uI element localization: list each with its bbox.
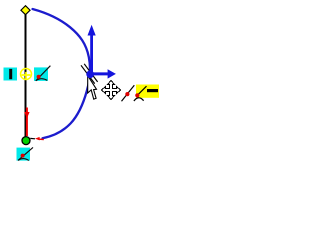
node endpoint diamond handle <box>21 6 30 15</box>
icon tangent relation box (lower) <box>17 147 34 160</box>
node origin hatch slash 1 <box>81 65 95 83</box>
wire origin X axis arrow <box>91 69 116 78</box>
cursor arrow pointer <box>88 76 97 100</box>
node midpoint cross <box>22 72 31 79</box>
icon tooltip tangent glyph <box>134 86 147 101</box>
icon point-on-line glyph <box>122 85 135 101</box>
wire red direction segment <box>26 108 28 137</box>
wire red arc-start tail <box>39 138 44 140</box>
wire vertical sketch line <box>25 14 27 137</box>
red arc-start arrow <box>35 137 40 141</box>
cursor move glyph <box>102 81 121 100</box>
node origin point blob <box>86 70 94 78</box>
node bottom black tick <box>30 137 35 139</box>
red direction arrowhead <box>24 112 29 118</box>
node origin hatch slash 2 <box>84 64 97 82</box>
node midpoint inference ring <box>21 69 32 80</box>
wire arc preview (blue tangent arc) <box>33 9 90 138</box>
icon tooltip yellow box <box>136 85 159 98</box>
node endpoint green handle <box>22 137 30 145</box>
wire origin Y axis arrow <box>88 25 96 72</box>
icon vertical relation box <box>4 68 18 81</box>
icon tooltip minus sign <box>147 89 158 92</box>
icon tangent relation box (upper) <box>34 66 50 81</box>
